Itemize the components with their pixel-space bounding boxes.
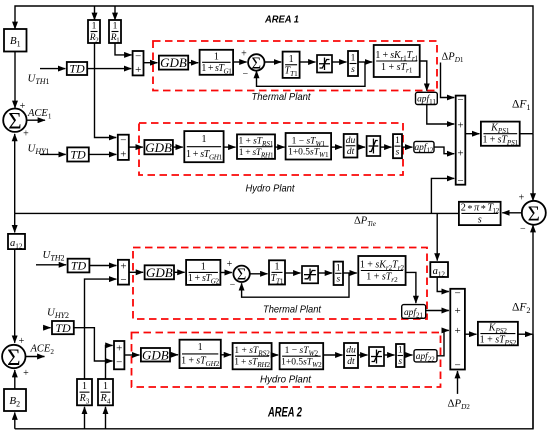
wire ΔP_D1 disturbance input <box>441 63 455 98</box>
svg-text:+: + <box>454 325 460 337</box>
svg-text:+: + <box>454 305 460 317</box>
integrator block 1/s thermal 1 <box>348 51 358 76</box>
wire integrator to reheat block 1 <box>358 61 372 63</box>
wire hydro summer to GDB 1 <box>129 146 143 148</box>
svg-text:Σ: Σ <box>237 265 247 284</box>
integrator block 1/s hydro 2 <box>396 344 405 367</box>
wire limiter to integrator hydro 1 <box>380 146 391 148</box>
svg-text:−: − <box>230 280 236 291</box>
wire drop into 1/R1 <box>114 6 116 20</box>
block TD hydro area 1 <box>67 147 89 161</box>
svg-text:GDB: GDB <box>146 265 173 280</box>
wire ΔP_D2 disturbance input <box>457 371 459 394</box>
summer block thermal inputs area 2 <box>118 260 129 286</box>
svg-text:Σ: Σ <box>528 201 540 225</box>
wire ΔF2 up to tie summer <box>532 225 534 429</box>
wire apf22 to area 2 summer plus <box>437 330 449 355</box>
gain block a12 right <box>430 262 448 278</box>
wire GDB to governor 1 <box>188 62 198 64</box>
wire thermal feedback loop area 1 <box>257 62 366 86</box>
wire TD to thermal summer plus <box>87 68 131 70</box>
participation block apf21 <box>402 305 426 320</box>
hydro plant 1 dashed boundary <box>139 123 403 175</box>
governor block 1/(1+sT_G2) <box>186 260 220 286</box>
wire droop comp to penstock 2 <box>272 354 279 356</box>
wire bottom up into 1/R3 <box>84 407 86 429</box>
wire turbine to limiter thermal 1 <box>300 61 316 63</box>
wire power system 2 to ΔF2 node <box>518 333 533 335</box>
wire 1/R1 to thermal summer minus <box>115 43 132 55</box>
gain block B2 <box>4 389 26 411</box>
summer block hydro inputs area 1 <box>118 134 129 160</box>
wire apf21 to area 2 summer plus <box>426 310 449 312</box>
svg-text:1: 1 <box>336 263 341 273</box>
wire summer to turbine 2 <box>250 273 268 275</box>
wire summer to GDB thermal 2 <box>129 271 143 273</box>
wire U_TH2 input <box>36 264 66 266</box>
svg-text:−: − <box>454 288 460 300</box>
svg-text:−: − <box>120 274 126 286</box>
wire U_HY1 input <box>40 153 66 155</box>
integrator block 1/s thermal 2 <box>334 262 343 285</box>
wire tie summer to tie block <box>502 212 521 214</box>
wire ΔP_Tie to area 1 summer minus <box>431 178 454 213</box>
wire drop into 1/R2 <box>94 6 96 20</box>
wire penstock to du/dt 2 <box>323 354 342 356</box>
svg-text:−: − <box>120 134 126 146</box>
svg-text:TD: TD <box>55 321 71 335</box>
reheat block (1+sKr1Tr1)/(1+sTr1) <box>374 45 420 77</box>
svg-text:−: − <box>457 175 463 187</box>
wire integrator to reheat block 2 <box>343 272 357 274</box>
svg-text:1: 1 <box>92 22 97 32</box>
hydro governor block 1/(1+sT_GH2) <box>180 340 221 369</box>
wire GDB to governor 2 <box>174 271 185 273</box>
rate limiter hydro area 1 <box>367 136 381 156</box>
svg-text:AREA 2: AREA 2 <box>267 405 302 420</box>
wire B2 to ACE2 summer <box>14 370 16 389</box>
summer ACE1 (area 1) <box>3 108 26 133</box>
wire TD to thermal summer plus area 2 <box>89 265 116 267</box>
wire a12 to area 2 summer minus <box>437 277 449 292</box>
gain block B1 <box>4 29 27 52</box>
wire 1/R4 to hydro summer plus area 2 <box>106 345 113 379</box>
svg-text:+: + <box>120 148 126 160</box>
svg-text:Hydro Plant: Hydro Plant <box>260 374 312 386</box>
svg-text:GDB: GDB <box>142 347 169 362</box>
wire B1 to sum ACE1 <box>14 52 16 109</box>
block GDB thermal area 1 <box>159 55 188 70</box>
svg-text:dt: dt <box>347 357 355 367</box>
gain block 1/R1 <box>109 20 121 44</box>
wire du/dt to limiter hydro 1 <box>357 146 365 148</box>
svg-text:1: 1 <box>198 342 203 353</box>
derivative block du/dt area 2 <box>344 343 358 368</box>
svg-text:s: s <box>478 214 482 225</box>
wire 1/R2 to hydro summer minus <box>95 43 117 138</box>
participation block apf12 <box>414 141 434 154</box>
wire summer to GDB thermal 1 <box>144 62 158 64</box>
gain block 1/R3 <box>77 379 92 405</box>
rate limiter thermal area 2 <box>302 266 318 283</box>
summer thermal loop area 1 <box>248 53 264 72</box>
wire governor to droop comp 2 <box>221 354 231 356</box>
governor block 1/(1+sT_G1) <box>200 50 234 76</box>
summer thermal loop area 2 <box>233 265 249 284</box>
svg-text:TD: TD <box>70 148 86 162</box>
svg-text:Hydro Plant: Hydro Plant <box>246 183 296 195</box>
area 1 power summer block <box>456 94 466 187</box>
penstock block (1-sTW2)/(1+0.5sTW2) <box>280 343 324 369</box>
svg-text:s: s <box>396 147 400 157</box>
wire governor to summer thermal 1 <box>233 61 247 63</box>
wire summer to power system 1 <box>465 133 479 135</box>
summer block hydro inputs area 2 <box>114 341 124 369</box>
wire GDB to hydro governor 1 <box>173 146 183 148</box>
tie line block 2*pi*T12/s <box>459 202 501 226</box>
svg-text:s: s <box>351 65 355 75</box>
gain block 1/R2 <box>88 20 100 44</box>
svg-text:TD: TD <box>71 259 87 273</box>
svg-text:GDB: GDB <box>145 140 172 155</box>
wire ΔF1 down to tie summer <box>532 134 534 201</box>
wire summer to turbine 1 <box>265 61 282 63</box>
svg-text:du: du <box>346 136 356 146</box>
wire droop comp to penstock 1 <box>275 146 285 148</box>
wire ACE1 output <box>27 119 45 121</box>
svg-text:−: − <box>454 360 460 372</box>
svg-text:TD: TD <box>69 61 85 75</box>
svg-text:+: + <box>120 260 126 272</box>
wire 1/R3 to thermal summer minus area 2 <box>85 279 117 379</box>
svg-text:Σ: Σ <box>8 108 21 133</box>
hydro plant 2 dashed boundary <box>132 333 441 388</box>
wire a12 to ACE2 summer <box>14 249 16 343</box>
wire reheat to apf11 <box>420 61 427 91</box>
svg-text:Σ: Σ <box>7 345 20 370</box>
hydro governor block 1/(1+sT_GH1) <box>184 131 223 162</box>
derivative block du/dt area 1 <box>344 134 358 158</box>
svg-text:1: 1 <box>214 51 219 62</box>
wire GDB to hydro governor 2 <box>170 354 178 356</box>
wire TD to hydro summer plus <box>89 153 117 155</box>
thermal plant 1 dashed boundary <box>153 41 437 91</box>
svg-text:1: 1 <box>351 54 356 64</box>
svg-text:−: − <box>457 94 463 106</box>
svg-text:1: 1 <box>275 261 280 272</box>
svg-text:+: + <box>457 120 463 132</box>
wire U_HY2 input <box>43 327 51 329</box>
svg-text:s: s <box>398 357 402 367</box>
svg-text:GDB: GDB <box>160 55 187 70</box>
svg-text:1: 1 <box>395 136 400 146</box>
wire apf11 to area summer plus <box>427 105 454 125</box>
block GDB thermal area 2 <box>145 265 174 280</box>
svg-text:1: 1 <box>82 381 87 392</box>
svg-text:Thermal Plant: Thermal Plant <box>263 304 322 316</box>
svg-text:+: + <box>457 148 463 160</box>
wire hydro summer to GDB 2 <box>124 354 139 356</box>
wire integrator to apf12 <box>402 146 412 148</box>
svg-text:+: + <box>135 64 141 76</box>
wire ΔF2 feedback bottom <box>15 334 533 429</box>
summer block thermal inputs area 1 <box>133 50 144 76</box>
wire apf12 to area summer plus <box>434 147 454 154</box>
svg-text:+: + <box>116 342 122 354</box>
svg-text:AREA 1: AREA 1 <box>264 14 299 26</box>
block TD thermal area 1 <box>67 61 87 75</box>
turbine block 1/T_T1 <box>283 52 300 78</box>
reheat block (1+sKr2Tr2)/(1+sTr2) <box>358 256 405 285</box>
power system block KPS1/(1+sTPS1) <box>481 122 520 147</box>
svg-text:s: s <box>336 275 340 285</box>
wire governor to droop comp 1 <box>224 146 236 148</box>
thermal plant 2 dashed boundary <box>133 248 427 320</box>
block GDB hydro area 2 <box>141 347 170 362</box>
wire ΔP_Tie down to a12 left <box>14 213 16 232</box>
summer ACE2 (area 2) <box>2 345 25 370</box>
gain block a12 left <box>8 234 25 250</box>
block TD hydro area 2 <box>52 321 74 335</box>
wire ΔF1 feedback top <box>15 6 533 134</box>
svg-text:dt: dt <box>347 147 355 157</box>
wire integrator to apf22 <box>405 354 413 356</box>
svg-text:−: − <box>242 69 248 80</box>
svg-text:Thermal Plant: Thermal Plant <box>252 91 312 103</box>
svg-text:−: − <box>520 223 526 234</box>
svg-text:1: 1 <box>103 381 108 392</box>
svg-text:+: + <box>519 193 525 204</box>
svg-text:−: − <box>116 356 122 368</box>
tie line summer <box>522 201 546 226</box>
integrator block 1/s hydro 1 <box>393 134 402 158</box>
wire U_TH1 input <box>40 68 65 70</box>
rate limiter hydro area 2 <box>369 347 384 366</box>
svg-text:1: 1 <box>201 134 206 145</box>
svg-text:1: 1 <box>201 261 206 272</box>
svg-text:1: 1 <box>113 22 118 32</box>
participation block apf22 <box>414 350 437 364</box>
wire du/dt to limiter hydro 2 <box>358 354 368 356</box>
wire power system 1 to ΔF1 node <box>520 133 533 135</box>
wire ΔP_Tie line <box>15 212 459 214</box>
droop compensator (1+sTRS1)/(1+sTRH1) <box>237 134 275 159</box>
block GDB hydro area 1 <box>144 140 173 155</box>
wire thermal feedback loop area 2 <box>242 273 349 297</box>
wire TD to hydro summer minus area 2 <box>74 328 113 361</box>
wire bottom line up into B2 <box>14 413 16 429</box>
turbine block 1/T_T1 area 2 <box>269 260 285 285</box>
penstock block (1-sTW1)/(1+0.5sTW1) <box>286 133 332 160</box>
wire governor to summer thermal 2 <box>220 272 232 274</box>
svg-text:Σ: Σ <box>251 53 261 72</box>
wire penstock to du/dt 1 <box>331 146 342 148</box>
wire limiter to integrator hydro 2 <box>384 354 395 356</box>
area 2 power summer block <box>450 288 465 372</box>
wire ACE2 output <box>26 356 45 358</box>
svg-text:+: + <box>227 259 233 270</box>
svg-text:1: 1 <box>289 54 294 65</box>
wire limiter to integrator thermal 2 <box>318 272 332 274</box>
rate limiter thermal area 1 <box>317 55 332 73</box>
droop compensator (1+sTRS2)/(1+sTRH2) <box>233 343 272 369</box>
svg-text:du: du <box>346 346 356 356</box>
wire bottom up into 1/R4 <box>105 407 107 429</box>
wire reheat to apf21 <box>406 272 416 303</box>
svg-text:+: + <box>23 368 29 379</box>
svg-text:1: 1 <box>398 346 403 356</box>
wire limiter to integrator thermal 1 <box>332 61 347 63</box>
svg-text:+: + <box>23 129 29 140</box>
block TD thermal area 2 <box>68 259 90 273</box>
wire summer to power system 2 <box>465 333 477 335</box>
wire ΔP_Tie down to a12 <box>436 213 438 260</box>
svg-text:+: + <box>241 49 247 60</box>
wire ΔP_Tie up to ACE1 summer <box>14 134 16 214</box>
wire turbine to limiter thermal 2 <box>285 272 301 274</box>
participation block apf11 <box>416 92 438 106</box>
svg-text:−: − <box>135 50 141 62</box>
power system block KPS2/(1+sTPS2) <box>478 322 518 347</box>
gain block 1/R4 <box>98 379 113 405</box>
